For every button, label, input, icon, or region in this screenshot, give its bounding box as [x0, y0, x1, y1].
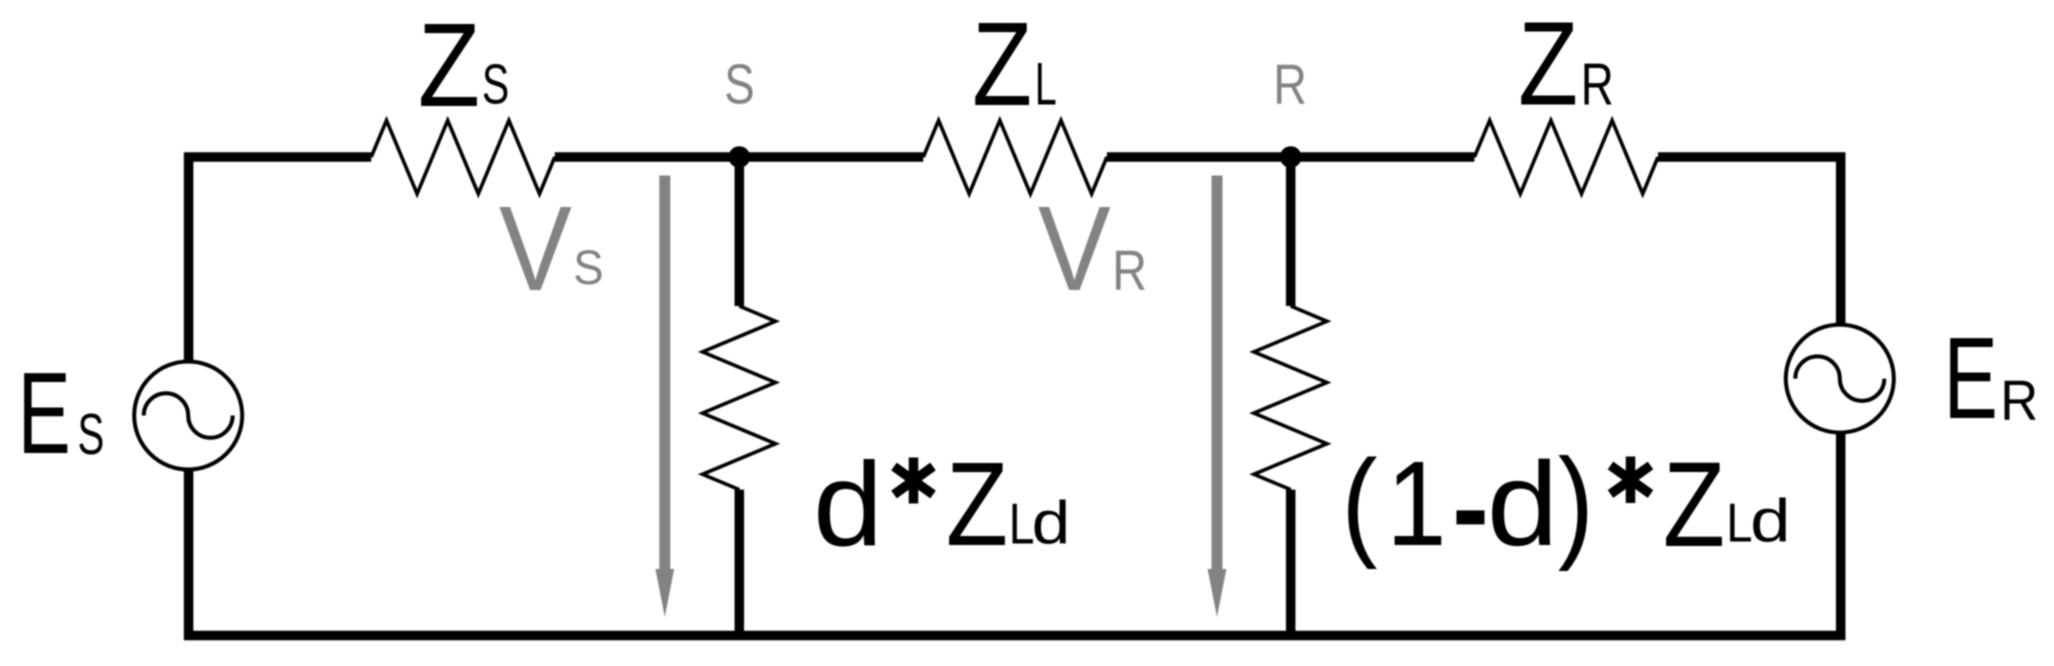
svg-text:E: E: [1944, 314, 1998, 444]
svg-text:S: S: [573, 240, 603, 295]
svg-text:L: L: [1726, 492, 1752, 553]
svg-text:d: d: [1750, 488, 1790, 555]
wire shunt resistor to bottom: [1286, 490, 1296, 636]
svg-text:): ): [1558, 432, 1594, 572]
arrow VS shaft: [659, 176, 670, 573]
resistor ZS: [371, 120, 555, 193]
svg-text:V: V: [499, 182, 572, 316]
source E_R sine: [1795, 356, 1884, 401]
wire top-left corner from E_S to Z_S: [189, 157, 372, 362]
svg-text:V: V: [1038, 182, 1111, 316]
bottom wire loop: from E_R bottom around to E_S bottom: [189, 432, 1841, 635]
wire from ZL to ZR through node R: [1107, 152, 1475, 162]
svg-text:(: (: [1342, 435, 1378, 570]
svg-text:1: 1: [1386, 437, 1446, 572]
resistor ZL: [923, 120, 1107, 193]
resistor d*ZLd: [703, 306, 776, 490]
wire top-right corner from ZR down to E_R: [1658, 157, 1841, 325]
wire node R down to shunt resistor: [1286, 157, 1296, 306]
svg-text:-: -: [1451, 402, 1489, 604]
resistor (1-d)*ZLd: [1254, 306, 1327, 490]
resistor ZR: [1474, 120, 1658, 193]
svg-text:d: d: [1032, 488, 1071, 556]
source E_S sine: [144, 393, 233, 437]
wire from ZS to ZL through node S: [555, 152, 924, 162]
svg-text:E: E: [18, 349, 71, 478]
wire shunt resistor to bottom: [735, 490, 745, 636]
source E_S circle: [134, 362, 242, 470]
arrow VS head: [655, 569, 674, 617]
node S dot: [729, 146, 751, 168]
svg-text:R: R: [1581, 52, 1614, 118]
svg-text:S: S: [482, 53, 509, 116]
source E_R circle: [1786, 325, 1894, 433]
svg-text:L: L: [1035, 50, 1057, 117]
svg-text:S: S: [78, 403, 105, 467]
svg-text:Z: Z: [418, 0, 480, 132]
node R dot: [1280, 146, 1302, 168]
svg-text:R: R: [1112, 239, 1147, 302]
svg-text:L: L: [1009, 493, 1035, 557]
svg-text:Z: Z: [1518, 0, 1578, 131]
svg-text:d: d: [813, 438, 883, 571]
svg-text:R: R: [2000, 369, 2038, 432]
svg-text:Z: Z: [1663, 437, 1725, 572]
arrow VR head: [1208, 569, 1227, 617]
svg-text:R: R: [1273, 52, 1307, 115]
arrow VR shaft: [1212, 176, 1223, 573]
label 1dZLd star: [1611, 457, 1651, 504]
label dZLd star: [894, 458, 933, 504]
svg-text:Z: Z: [972, 0, 1032, 131]
wire node S down to shunt resistor: [735, 157, 745, 306]
svg-text:d: d: [1487, 438, 1559, 571]
svg-text:Z: Z: [946, 439, 1008, 571]
svg-text:S: S: [724, 53, 754, 116]
